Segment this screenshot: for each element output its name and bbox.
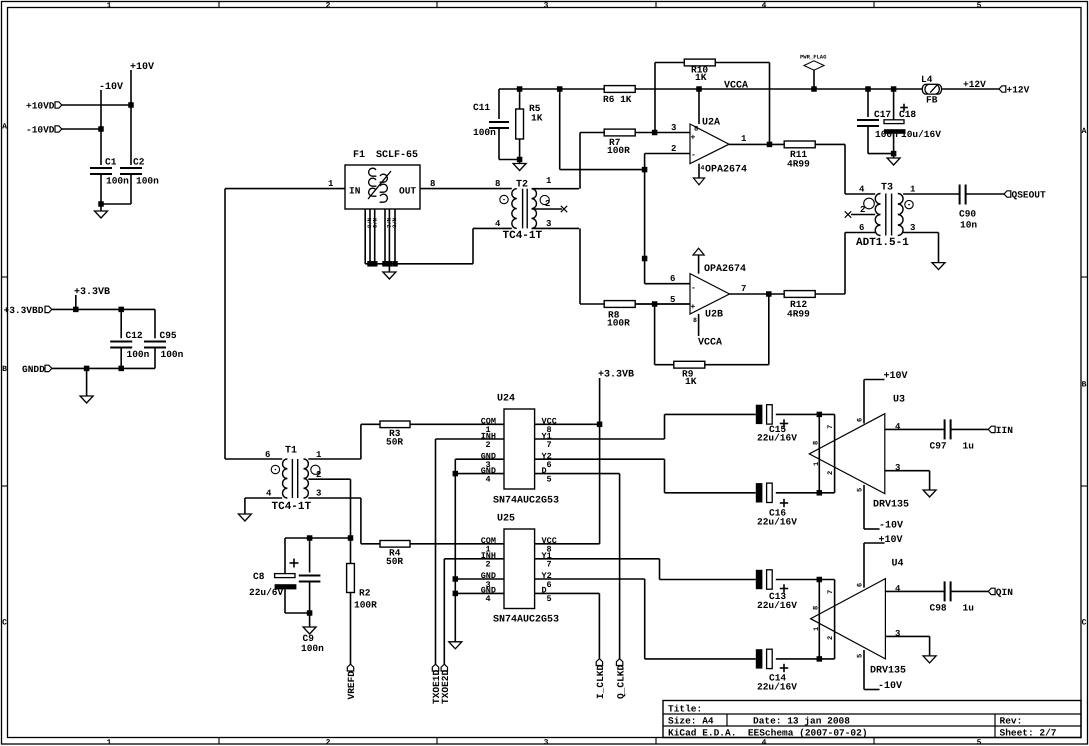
capacitor C90 <box>959 185 961 205</box>
global label IIN <box>988 426 995 432</box>
wire +3.3VBD rail <box>52 308 155 310</box>
svg-text:U3: U3 <box>893 395 905 406</box>
U2B pin 6 wire <box>645 283 690 285</box>
title block frame <box>663 701 1081 738</box>
svg-text:6: 6 <box>857 583 865 587</box>
U25 pin GND/3 wire <box>455 578 504 580</box>
junction R9 tap <box>652 301 658 307</box>
svg-text:Q_CLKD: Q_CLKD <box>615 664 626 699</box>
U25 pin D/5 wire <box>535 592 600 594</box>
svg-text:5: 5 <box>977 1 982 10</box>
svg-text:SN74AUC2G53: SN74AUC2G53 <box>493 496 559 507</box>
svg-text:2: 2 <box>326 1 331 10</box>
svg-text:U2B: U2B <box>705 310 723 321</box>
svg-text:50R: 50R <box>386 556 403 567</box>
capacitor C13 polarized <box>756 570 763 589</box>
capacitor C95 <box>154 309 156 338</box>
wire Y2 to C16 <box>664 459 666 493</box>
svg-text:6: 6 <box>265 450 270 460</box>
svg-text:Date: 13 jan 2008: Date: 13 jan 2008 <box>753 716 850 727</box>
svg-text:F1: F1 <box>353 150 365 161</box>
ground symbol T1 <box>238 514 251 521</box>
svg-text:8: 8 <box>430 179 435 189</box>
U3 pin 6 +10V <box>863 380 865 424</box>
svg-text:2: 2 <box>326 738 331 746</box>
svg-text:1: 1 <box>107 1 112 10</box>
svg-text:100R: 100R <box>607 318 630 329</box>
wire C13 to U4 <box>776 579 835 581</box>
resistor R2 <box>350 538 352 563</box>
junction C15/U3 <box>817 412 823 418</box>
junction C12 top <box>118 307 124 313</box>
global label QIN <box>988 588 995 594</box>
U25 pin VCC/8 wire <box>535 543 600 545</box>
junction minus-input bus <box>642 167 648 173</box>
svg-text:100n: 100n <box>161 349 184 360</box>
global label Q_CLKD <box>619 474 621 659</box>
capacitor C97 <box>944 419 946 439</box>
svg-text:A: A <box>2 123 7 132</box>
U25 pin GND/4 wire <box>455 592 504 594</box>
svg-text:C11: C11 <box>473 102 490 113</box>
op-amp U3 DRV135 <box>818 414 820 492</box>
F1 bottom pins <box>364 209 366 264</box>
wire C2 bottom to C1 bottom <box>101 203 131 205</box>
wire Y1 to C15 <box>664 414 666 439</box>
svg-text:U25: U25 <box>497 514 515 525</box>
U24 pin Y1/7 wire <box>535 438 665 440</box>
junction U2B output <box>766 291 772 297</box>
wire C11/R5 bottom <box>499 159 520 161</box>
ground symbol U4 pin3 <box>923 656 936 663</box>
T3 pin 3 wire <box>903 232 938 234</box>
global label VREFD <box>347 664 353 671</box>
junction C17 top <box>865 86 871 92</box>
capacitor C12 <box>120 309 122 338</box>
border row ticks right <box>1081 276 1088 278</box>
svg-text:VREFD: VREFD <box>346 671 357 700</box>
U2B pin 5 wire <box>635 303 690 305</box>
svg-text:10n: 10n <box>960 220 977 231</box>
junction U2A output <box>767 142 773 148</box>
junction U25 GND3 <box>453 576 459 582</box>
junction R2/T1pin2 <box>348 535 354 541</box>
U3 pin 3 wire to ground <box>885 470 930 472</box>
U2A VCC pin 8 <box>698 89 700 124</box>
svg-text:VCCA: VCCA <box>698 338 722 349</box>
svg-text:4R99: 4R99 <box>787 309 810 320</box>
svg-text:TC4-1T: TC4-1T <box>503 230 543 242</box>
svg-text:-: - <box>691 151 696 160</box>
svg-text:SCLF-65: SCLF-65 <box>376 150 418 161</box>
svg-text:7: 7 <box>827 590 835 594</box>
svg-text:TXOE2D: TXOE2D <box>440 669 451 704</box>
svg-text:2: 2 <box>486 560 491 570</box>
svg-text:3: 3 <box>546 219 551 229</box>
svg-text:22u/16V: 22u/16V <box>757 517 797 528</box>
svg-text:3: 3 <box>316 489 321 499</box>
svg-text:Size: A4: Size: A4 <box>668 716 714 727</box>
U4 pin 4 output wire <box>885 590 944 592</box>
svg-text:3: 3 <box>895 463 900 473</box>
svg-text:100n: 100n <box>473 127 496 138</box>
svg-text:C97: C97 <box>930 441 947 452</box>
svg-text:-10V: -10V <box>99 82 123 93</box>
svg-text:4: 4 <box>859 185 865 195</box>
svg-text:1: 1 <box>316 450 322 460</box>
T2 pin 4 wire <box>473 227 512 229</box>
svg-text:OPA2674: OPA2674 <box>704 264 746 275</box>
junction +3.3VB stub <box>73 307 79 313</box>
svg-text:2: 2 <box>827 471 835 475</box>
ground symbol U24/U25 <box>449 642 462 649</box>
svg-text:6: 6 <box>859 223 864 233</box>
resistor R10 <box>654 63 656 133</box>
U24 pin INH/2 wire <box>436 438 505 440</box>
svg-text:TC4-1T: TC4-1T <box>272 501 312 513</box>
U2B V- pin 4 arrow up <box>698 255 700 274</box>
resistor R12 <box>784 291 815 298</box>
svg-text:3: 3 <box>895 629 900 639</box>
svg-text:+: + <box>691 134 696 143</box>
junction C17/C18 ground <box>891 151 897 157</box>
U25 pin Y1/7 wire <box>535 558 660 560</box>
resistor R7 <box>580 132 605 134</box>
svg-text:FB: FB <box>926 95 938 106</box>
svg-text:C12: C12 <box>126 330 143 341</box>
T3 pin 6 wire <box>845 232 875 234</box>
svg-text:22u/16V: 22u/16V <box>757 432 797 443</box>
junction C12 bottom <box>118 366 124 372</box>
svg-text:+10VD: +10VD <box>26 101 55 112</box>
svg-text:+10V: +10V <box>884 371 908 382</box>
global label TXOE1D <box>435 439 437 664</box>
T3 pin 4 wire <box>845 193 875 195</box>
svg-text:50R: 50R <box>386 437 403 448</box>
power label +3.3VB left <box>75 295 77 309</box>
svg-text:1K: 1K <box>531 113 543 124</box>
svg-text:7: 7 <box>827 425 835 429</box>
junction U24 VCC +3.3VB <box>597 422 603 428</box>
op-amp U2B OPA2674 <box>690 274 730 314</box>
svg-text:+: + <box>691 303 696 312</box>
junction R5 bottom <box>517 157 523 163</box>
wire -10VD to C1 <box>62 128 101 130</box>
svg-text:-: - <box>691 284 696 293</box>
U24 pin GND/3 wire <box>455 458 504 460</box>
svg-text:100n: 100n <box>106 176 129 187</box>
junction U25 GND4 <box>453 591 459 597</box>
svg-text:Sheet: 2/7: Sheet: 2/7 <box>1000 728 1057 739</box>
wire R7 to T2 pin1 <box>579 133 581 189</box>
svg-text:-10V: -10V <box>878 681 902 692</box>
wire VREF rail <box>285 537 351 539</box>
svg-text:C: C <box>1082 619 1087 628</box>
IC U25 SN74AUC2G53 <box>504 529 535 609</box>
svg-text:+3.3VBD: +3.3VBD <box>4 305 44 316</box>
border row ticks left <box>2 276 8 278</box>
capacitor C16 polarized <box>756 483 763 502</box>
capacitor C15 polarized <box>756 405 763 424</box>
svg-text:OUT: OUT <box>399 186 416 197</box>
svg-text:IIN: IIN <box>996 425 1013 436</box>
capacitor C9 <box>309 538 311 573</box>
global label I_CLKD <box>598 593 600 658</box>
svg-text:4: 4 <box>762 1 767 10</box>
U4 pin 3 wire to ground <box>885 635 929 637</box>
resistor R4 <box>361 543 380 545</box>
svg-text:A: A <box>1082 127 1087 136</box>
T2 pin 1 wire <box>532 188 580 190</box>
svg-text:22u/6V: 22u/6V <box>249 587 284 598</box>
svg-text:2: 2 <box>827 636 835 640</box>
svg-text:5: 5 <box>857 654 865 658</box>
resistor R5 <box>519 89 521 109</box>
IC U24 SN74AUC2G53 <box>504 409 535 489</box>
wire input to F1 (long left vertical) <box>225 188 345 190</box>
svg-text:+10V: +10V <box>879 535 903 546</box>
svg-text:B: B <box>1082 381 1087 390</box>
svg-text:U2A: U2A <box>702 118 720 129</box>
junction GNDD ground stub <box>84 366 90 372</box>
svg-text:ADT1.5-1: ADT1.5-1 <box>856 237 909 249</box>
svg-text:N/C: N/C <box>391 218 398 229</box>
ground symbol C9 <box>309 613 311 627</box>
svg-text:C1: C1 <box>105 157 117 168</box>
U25 pin Y2/6 wire <box>535 578 645 580</box>
svg-text:100n: 100n <box>136 176 159 187</box>
svg-text:7: 7 <box>547 440 552 450</box>
junction C9 bottom <box>307 610 313 616</box>
svg-text:3: 3 <box>671 123 676 133</box>
svg-text:1K: 1K <box>695 72 707 83</box>
wire F1 OUT to T2 <box>420 188 512 190</box>
svg-text:1: 1 <box>813 462 821 466</box>
svg-text:1u: 1u <box>963 603 975 614</box>
wire U25 Y1 to C13 <box>659 559 661 580</box>
capacitor C2 <box>130 105 132 165</box>
svg-text:U4: U4 <box>892 559 904 570</box>
svg-text:T1: T1 <box>285 446 297 457</box>
filter F1 SCLF-65 box <box>345 165 420 209</box>
svg-text:1u: 1u <box>963 441 975 452</box>
svg-text:I_CLKD: I_CLKD <box>595 664 606 699</box>
svg-text:+12V: +12V <box>963 79 986 90</box>
filter F1 internal symbol <box>368 168 391 202</box>
global label +12V <box>999 86 1006 92</box>
svg-text:KiCad E.D.A. EESchema (2007-0: KiCad E.D.A. EESchema (2007-07-02) <box>668 728 868 739</box>
svg-text:4: 4 <box>895 422 901 432</box>
svg-text:5: 5 <box>547 594 552 604</box>
svg-text:OPA2674: OPA2674 <box>705 165 747 176</box>
svg-text:100R: 100R <box>607 145 630 156</box>
svg-text:Title:: Title: <box>668 704 702 715</box>
svg-text:SN74AUC2G53: SN74AUC2G53 <box>493 615 559 626</box>
junction -10VD/C1 <box>98 126 104 132</box>
svg-text:4: 4 <box>701 165 705 172</box>
T1 phase dot left <box>271 465 279 473</box>
resistor R11 <box>784 141 815 148</box>
svg-text:C2: C2 <box>133 157 145 168</box>
junction C18 top <box>891 86 897 92</box>
capacitor C98 <box>944 581 946 601</box>
svg-text:7: 7 <box>547 560 552 570</box>
svg-text:QIN: QIN <box>996 587 1013 598</box>
ground symbol GNDD <box>86 368 88 396</box>
svg-text:4: 4 <box>486 594 491 604</box>
svg-text:C98: C98 <box>930 603 947 614</box>
svg-text:22u/16V: 22u/16V <box>757 682 797 693</box>
junction minus bus mid <box>642 256 648 262</box>
junction PWR_FLAG <box>811 86 817 92</box>
svg-text:1: 1 <box>741 134 747 144</box>
svg-text:1: 1 <box>813 627 821 631</box>
junction C14/U4 <box>817 656 823 662</box>
T2 pin 2 wire + no-connect <box>532 208 563 210</box>
U24 pin D/5 wire <box>535 473 620 475</box>
U4 pin 5 -10V <box>863 650 865 690</box>
T1 phase dot right <box>311 465 320 474</box>
junction R10/pin3 <box>652 130 658 136</box>
op-amp U2A OPA2674 <box>690 124 729 164</box>
junction U24 GND4 <box>453 471 459 477</box>
power label -10V <box>100 90 102 129</box>
capacitor C18 polarized <box>893 89 895 120</box>
wire C14 to U4 <box>776 658 835 660</box>
U24 pin VCC/8 wire <box>535 423 600 425</box>
svg-text:4: 4 <box>486 475 491 485</box>
capacitor C14 polarized <box>756 649 763 668</box>
svg-text:8: 8 <box>694 126 698 134</box>
resistor R9 feedback <box>654 304 656 365</box>
svg-text:5: 5 <box>857 488 865 492</box>
svg-text:2: 2 <box>545 199 550 209</box>
svg-text:3: 3 <box>544 1 549 10</box>
T2 pin 3 wire <box>532 227 580 229</box>
svg-text:C8: C8 <box>253 571 265 582</box>
svg-text:U24: U24 <box>497 394 515 405</box>
wire C16 to U3 <box>776 492 835 494</box>
global label TXOE2D <box>441 664 447 671</box>
junction +10VD/C2 <box>128 102 134 108</box>
svg-text:100n: 100n <box>301 643 324 654</box>
wire F1 ground bus <box>365 263 473 265</box>
U3 pin 4 output wire <box>885 428 945 430</box>
T2 phase dot left <box>500 195 508 203</box>
capacitor C17 <box>867 89 869 117</box>
svg-text:C17: C17 <box>874 109 891 120</box>
wire GNDD rail <box>52 367 155 369</box>
svg-text:4: 4 <box>495 219 501 229</box>
U4 pin 6 +10V <box>863 543 865 588</box>
U2A pin 2 wire <box>645 153 690 155</box>
svg-text:100R: 100R <box>354 600 377 611</box>
svg-text:1: 1 <box>328 179 334 189</box>
svg-text:2: 2 <box>316 470 321 480</box>
T3 pin 1 wire <box>903 193 960 195</box>
U3 pin 5 -10V <box>863 485 865 529</box>
svg-text:C: C <box>2 619 7 628</box>
svg-text:T3: T3 <box>881 183 893 194</box>
svg-text:5: 5 <box>977 738 982 746</box>
svg-text:2: 2 <box>486 440 491 450</box>
ground symbol T3 pin3 <box>932 263 945 270</box>
junction C9 top <box>307 535 313 541</box>
svg-text:4: 4 <box>762 738 767 746</box>
svg-text:10u/16V: 10u/16V <box>901 129 941 140</box>
svg-text:+12V: +12V <box>1007 85 1030 96</box>
ground symbol C11/R5 <box>519 160 521 164</box>
wire L4 to +12V label <box>942 88 999 90</box>
U2A output pin 1 wire <box>729 143 784 145</box>
junction U2A VCC <box>696 86 702 92</box>
svg-text:GNDD: GNDD <box>22 364 45 375</box>
svg-text:PWR_FLAG: PWR_FLAG <box>800 54 827 61</box>
svg-text:-10V: -10V <box>879 521 903 532</box>
svg-text:4: 4 <box>266 489 272 499</box>
svg-text:2: 2 <box>671 144 676 154</box>
svg-text:3: 3 <box>544 738 549 746</box>
svg-text:-10VD: -10VD <box>26 125 55 136</box>
resistor R8 <box>604 301 635 308</box>
svg-text:Rev:: Rev: <box>1000 716 1023 727</box>
svg-text:IN: IN <box>349 186 361 197</box>
T3 phase dot left <box>864 198 875 209</box>
svg-text:22u/16V: 22u/16V <box>757 600 797 611</box>
svg-text:L4: L4 <box>921 74 933 85</box>
svg-text:C90: C90 <box>959 209 976 220</box>
U2A V- pin 4 arrow <box>698 164 700 178</box>
svg-text:5: 5 <box>547 475 552 485</box>
global label QSEOUT <box>1004 191 1011 197</box>
svg-text:4R99: 4R99 <box>787 159 810 170</box>
svg-text:+10V: +10V <box>130 62 154 73</box>
T1 pin 1 wire <box>308 458 361 460</box>
resistor R6 <box>604 86 635 93</box>
U2B output pin 7 wire <box>730 293 785 295</box>
svg-text:8: 8 <box>813 606 821 610</box>
svg-text:QSEOUT: QSEOUT <box>1012 190 1047 201</box>
wire VCCA rail <box>635 88 922 90</box>
border column ticks top <box>218 2 220 8</box>
svg-text:8: 8 <box>693 317 697 324</box>
ground symbol F1 <box>388 264 390 272</box>
svg-text:6: 6 <box>547 580 552 590</box>
svg-text:8: 8 <box>813 441 821 445</box>
U25 pin INH/2 wire <box>444 558 504 560</box>
op-amp U4 DRV135 <box>818 580 820 659</box>
svg-text:2: 2 <box>860 205 865 215</box>
T1 pin 2 wire <box>308 478 350 480</box>
svg-text:VCCA: VCCA <box>724 81 748 92</box>
svg-text:1: 1 <box>546 176 552 186</box>
wire T2 pin3 to R8 <box>579 228 581 304</box>
svg-text:7: 7 <box>741 284 746 294</box>
svg-text:4: 4 <box>895 584 901 594</box>
wire bias drop to minus-input bus <box>559 89 561 170</box>
junction R5 top <box>517 86 523 92</box>
T3 phase dot right <box>905 200 913 208</box>
T1 pin 4 wire <box>245 497 282 499</box>
capacitor C8 polarized <box>284 538 286 574</box>
wire +10VD to C2 <box>62 104 131 106</box>
junction C13/U4 <box>817 577 823 583</box>
svg-text:3: 3 <box>910 223 915 233</box>
svg-text:+3.3VB: +3.3VB <box>74 287 110 298</box>
svg-text:100n: 100n <box>127 349 150 360</box>
U2B VCCA power pin <box>698 314 700 336</box>
U24 pin GND/4 wire <box>455 473 504 475</box>
